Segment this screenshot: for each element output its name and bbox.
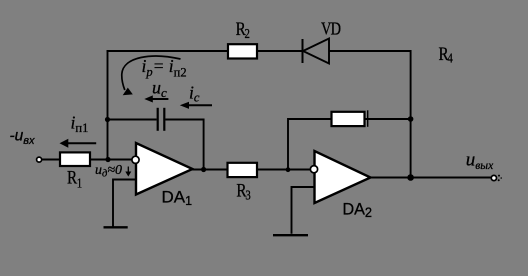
junction node: cap branch on DA1 output bbox=[201, 167, 206, 172]
resistor R2 bbox=[228, 44, 257, 58]
junction node: DA1 inverting input bbox=[105, 157, 110, 162]
wire from R2 to diode cathode bbox=[257, 50, 302, 52]
wire R1 to DA1 inverting input bbox=[90, 159, 133, 161]
arrow ic (points left) bbox=[180, 102, 212, 109]
op-amp DA1 bbox=[136, 143, 193, 195]
input terminal circle bbox=[37, 157, 42, 162]
wire from diode to top-right corner and down to output node bbox=[329, 51, 411, 178]
wire left vertical from top wire down to DA1 input node bbox=[107, 50, 109, 159]
capacitor C bbox=[158, 108, 165, 131]
arrow uc (points left) bbox=[144, 95, 168, 102]
wire top feedback from left vertical to R2 bbox=[107, 50, 228, 52]
output terminal circle bbox=[491, 175, 496, 180]
ground symbol of DA2 bbox=[273, 234, 308, 236]
junction node: R4 on right vertical bbox=[408, 116, 414, 122]
curved arrow for ip bbox=[122, 56, 181, 95]
wire DA1 non-inverting input to ground bbox=[113, 180, 136, 227]
wire R4 branch: down from R4 level to DA2 input node bbox=[288, 119, 331, 170]
svg-text:uд≈0: uд≈0 bbox=[95, 163, 122, 180]
op-amp DA2 bbox=[315, 151, 371, 203]
junction node: cap branch on left vertical bbox=[105, 117, 110, 122]
wire DA1 output to R3 bbox=[192, 169, 227, 171]
wire DA2 non-inverting input to ground bbox=[292, 187, 315, 234]
wire DA2 output to output terminal bbox=[370, 177, 491, 179]
wire capacitor branch right then down to DA1 output bbox=[165, 120, 203, 170]
resistor R1 bbox=[60, 152, 90, 166]
diode VD bbox=[303, 39, 330, 64]
DA1 inverting input circle bbox=[132, 156, 139, 163]
wire input terminal to R1 bbox=[42, 159, 61, 161]
wire R3 to DA2 inverting input bbox=[258, 169, 312, 171]
resistor R4 bbox=[332, 112, 365, 126]
junction node: R4 branch on DA2 input wire bbox=[286, 167, 291, 172]
DA2 inverting input circle bbox=[310, 166, 317, 173]
label ud~0 with down arrow bbox=[95, 163, 131, 180]
ground symbol of DA1 bbox=[104, 226, 128, 228]
extra tick right of R4 bbox=[367, 110, 369, 127]
svg-text:VD: VD bbox=[321, 18, 341, 39]
wire R4 to right vertical bbox=[365, 118, 411, 120]
junction node: right vertical on output wire bbox=[407, 174, 414, 181]
wire capacitor branch left bbox=[107, 119, 157, 121]
arrow ip1 (points left) bbox=[60, 139, 97, 148]
resistor R3 bbox=[228, 163, 258, 177]
